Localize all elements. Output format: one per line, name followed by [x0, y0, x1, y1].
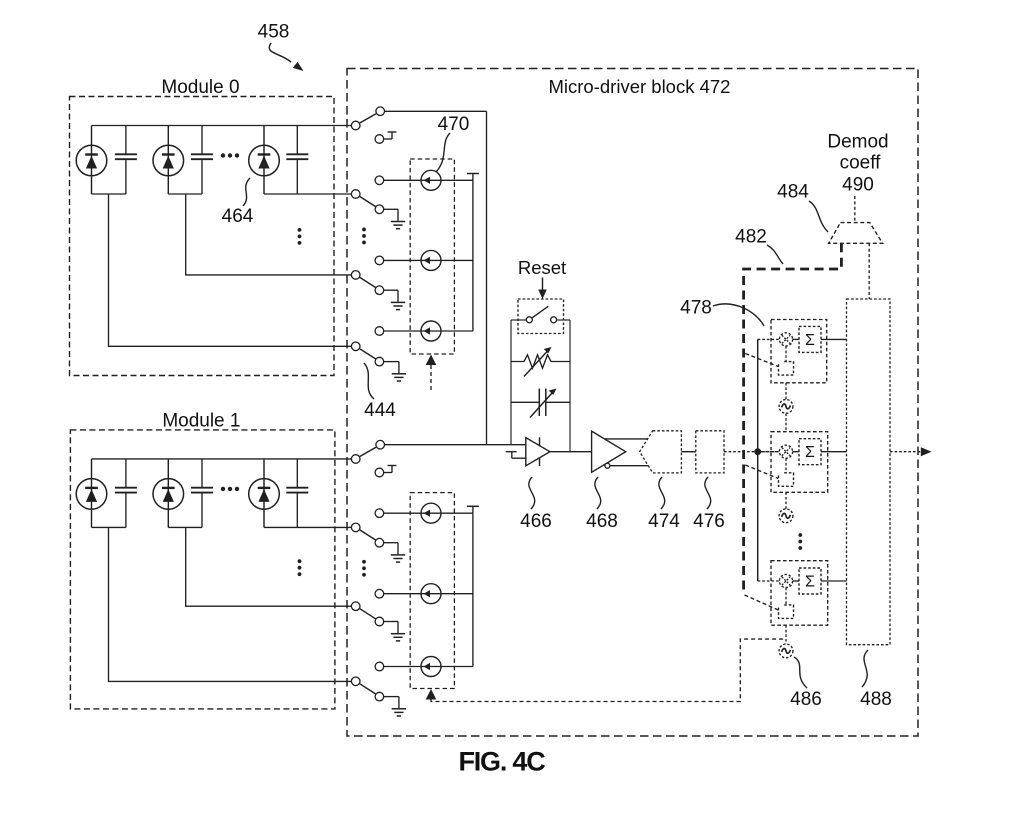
contact CS1 bank0	[375, 176, 384, 185]
svg-text:468: 468	[586, 511, 618, 532]
ground G4 bank1	[392, 709, 406, 716]
throw contact T1 bank1	[376, 440, 385, 449]
wire T1 bank1 to signal	[385, 444, 526, 446]
capacitor C1n	[286, 459, 308, 528]
pole contact P1 bank0	[351, 121, 360, 130]
wire T4 to ground bank1	[384, 697, 399, 709]
open contact stub bank1	[384, 466, 397, 473]
wire module1 pair1 drop	[109, 527, 352, 681]
wire T4 to ground bank0	[384, 362, 399, 374]
op-amp 466	[526, 437, 550, 466]
sum channel 2	[799, 439, 821, 465]
wire sum-488 channel 1	[821, 338, 847, 340]
svg-text:444: 444	[364, 400, 396, 421]
leader 468	[595, 477, 601, 509]
svg-text:486: 486	[790, 689, 822, 710]
wire PD1b-C1b bottom	[168, 526, 202, 528]
svg-text:476: 476	[693, 511, 725, 532]
coeff tap channel 3	[745, 595, 779, 610]
switch arm S4 bank0	[360, 349, 376, 359]
open contact bank1	[375, 468, 384, 477]
wire module0 pair1 drop	[109, 194, 352, 346]
leader 474	[659, 477, 665, 509]
current source box bank0	[410, 159, 454, 354]
wire mixer-sum channel 3	[793, 580, 799, 582]
svg-text:458: 458	[258, 22, 290, 43]
leader 466	[529, 477, 535, 509]
wire amp466 output	[550, 451, 592, 453]
capacitor C1a	[115, 459, 137, 528]
wire box-oscillator channel 1	[785, 383, 787, 400]
ellipsis module 1	[221, 487, 239, 491]
ground G3 bank1	[391, 634, 405, 641]
coeff funnel 484	[829, 223, 883, 244]
vertical ellipsis demod	[798, 533, 802, 550]
current source I1 bank0	[421, 170, 441, 190]
wire CS3 row bank1	[384, 666, 473, 668]
sum channel 3	[799, 568, 821, 594]
contact CS1 bank1	[375, 509, 384, 518]
open contact bank0	[375, 135, 384, 144]
mixer channel 3	[779, 574, 792, 587]
pole contact P3 bank1	[351, 602, 360, 611]
throw contact T1 bank0	[376, 107, 385, 116]
throw contact T2 bank0	[375, 205, 384, 214]
switch arm S3 bank0	[360, 277, 376, 287]
arrow Reset	[538, 278, 547, 300]
Micro-driver block 472 boundary	[347, 69, 918, 737]
wire T3 to ground bank1	[384, 622, 398, 634]
svg-text:484: 484	[777, 182, 809, 203]
bus current sources bank1	[472, 513, 474, 666]
integrator channel 3	[779, 605, 794, 619]
leader 486	[794, 657, 807, 688]
switch arm S3 bank1	[360, 609, 376, 619]
reset switch box	[518, 299, 564, 334]
vertical ellipsis bank1	[362, 560, 366, 577]
vertical ellipsis module 1	[298, 559, 302, 576]
wire mixer-sum channel 1	[793, 338, 799, 340]
current source I2 bank1	[421, 584, 441, 604]
wire channel2 input	[758, 451, 780, 453]
photodiode PD1n	[249, 459, 280, 528]
pole contact P1 bank1	[351, 455, 360, 464]
switch arm S2 bank1	[360, 530, 376, 540]
wire PD0a-C0a bottom	[92, 193, 126, 195]
leader 484	[809, 201, 828, 232]
wire oscillator-down channel 1	[785, 414, 787, 432]
ellipsis module 0	[221, 153, 239, 157]
arrow 458	[269, 43, 303, 71]
svg-text:Σ: Σ	[805, 574, 815, 591]
feedback network box	[511, 320, 570, 452]
integrator channel 2	[779, 473, 794, 487]
wire T1 bank0 to signal	[385, 111, 487, 445]
wire CS2 row bank1	[384, 593, 473, 595]
coeff tap channel 2	[745, 465, 778, 479]
demod channel 2 box	[771, 432, 828, 493]
amp466 reference stub	[506, 452, 526, 459]
wire 476 output	[724, 451, 779, 453]
wire T2 to ground bank1	[384, 543, 398, 555]
wire CS3 row bank0	[384, 330, 473, 332]
leader 470	[436, 133, 450, 172]
vertical ellipsis bank0	[362, 228, 366, 245]
wire PD0n bottom to terminal	[264, 193, 351, 195]
oscillator channel 3	[779, 644, 793, 658]
wire module0 top rail	[92, 125, 352, 127]
control line oscillators to current sources	[431, 639, 786, 701]
variable resistor feedback	[511, 347, 570, 377]
switch arm S1 bank0	[360, 114, 376, 123]
wire 490-funnel	[854, 196, 856, 223]
svg-text:490: 490	[842, 175, 874, 196]
throw contact T4 bank1	[375, 692, 384, 701]
vertical ellipsis module 0	[298, 228, 302, 245]
current source I1 bank1	[421, 503, 441, 523]
svg-text:Module 1: Module 1	[162, 410, 240, 431]
wire mixer-integrator channel 3	[785, 588, 787, 605]
demod channel 1 box	[771, 320, 827, 383]
wire CS1 row bank1	[384, 512, 473, 514]
contact CS3 bank0	[375, 327, 384, 336]
contact CS3 bank1	[375, 662, 384, 671]
control stub bank0	[430, 365, 432, 390]
wire sum-488 channel 2	[821, 451, 847, 453]
current source I3 bank1	[421, 657, 441, 677]
pole contact P3 bank0	[351, 271, 360, 280]
capacitor C0n	[286, 126, 308, 195]
wire box-oscillator channel 3	[785, 625, 787, 644]
pole contact P2 bank0	[351, 190, 360, 199]
junction node	[754, 448, 761, 455]
ground G4 bank0	[392, 374, 406, 381]
mixer channel 1	[779, 333, 792, 346]
control arrow bank0	[426, 355, 437, 366]
svg-text:coeff: coeff	[840, 153, 882, 174]
coeff bus 482	[744, 243, 842, 595]
throw contact T4 bank0	[375, 357, 384, 366]
bubble 468	[605, 463, 610, 468]
wire 474-476	[681, 451, 695, 453]
contact CS2 bank0	[375, 256, 384, 265]
bus demod channels	[757, 339, 759, 581]
supply rail bank1	[467, 506, 479, 513]
op-amp 468	[592, 431, 626, 472]
leader 444	[364, 363, 374, 399]
svg-text:466: 466	[520, 511, 552, 532]
current source box bank1	[410, 493, 454, 689]
leader 476	[705, 477, 711, 509]
throw contact T2 bank1	[375, 538, 384, 547]
svg-text:Reset: Reset	[518, 257, 566, 278]
open contact stub bank0	[384, 132, 397, 139]
svg-text:478: 478	[680, 298, 712, 319]
coeff tap channel 1	[745, 354, 778, 367]
switch arm S2 bank0	[360, 197, 376, 207]
oscillator channel 2	[779, 509, 793, 523]
wire T2 to ground bank0	[384, 209, 398, 221]
wire CS2 row bank0	[384, 259, 473, 261]
wire sum-488 channel 3	[821, 580, 847, 582]
wire channel3 input	[758, 580, 780, 582]
sum channel 1	[799, 326, 821, 352]
photodiode PD1b	[153, 459, 184, 528]
current source I3 bank0	[421, 321, 441, 341]
current source I2 bank0	[421, 250, 441, 270]
integrator channel 1	[779, 362, 794, 376]
svg-text:Σ: Σ	[805, 332, 815, 349]
filter 476	[696, 431, 724, 473]
reset switch	[526, 306, 556, 323]
Module 0 box	[70, 97, 335, 376]
photodiode PD1a	[76, 459, 107, 528]
svg-text:464: 464	[222, 206, 254, 227]
throw contact T3 bank1	[375, 617, 384, 626]
svg-text:470: 470	[438, 114, 470, 135]
wire mixer-integrator channel 1	[785, 346, 787, 362]
switch arm S1 bank1	[360, 447, 376, 456]
photodiode PD0b	[153, 126, 184, 195]
wire 468 lower link	[610, 465, 649, 467]
pole contact P4 bank0	[351, 342, 360, 351]
leader 488	[862, 650, 868, 687]
wire T3 to ground bank0	[384, 290, 398, 302]
wire module1 top rail	[92, 458, 352, 460]
wire CS1 row bank0	[384, 179, 473, 181]
pole contact P4 bank1	[351, 677, 360, 686]
svg-text:488: 488	[860, 689, 892, 710]
wire box-oscillator channel 2	[785, 492, 787, 508]
svg-text:Module 0: Module 0	[161, 77, 239, 98]
wire PD0b-C0b bottom	[168, 193, 202, 195]
svg-text:Σ: Σ	[805, 444, 815, 461]
ground G3 bank0	[391, 302, 405, 309]
variable capacitor feedback	[511, 389, 570, 418]
leader 464	[243, 178, 250, 206]
oscillator channel 1	[779, 400, 793, 414]
mixer channel 2	[779, 445, 792, 458]
photodiode PD0a	[76, 126, 107, 195]
control arrow bank1	[426, 689, 437, 700]
svg-text:474: 474	[648, 511, 680, 532]
ground G2 bank1	[391, 555, 405, 562]
wire channel1 input	[758, 338, 780, 340]
svg-text:Demod: Demod	[827, 132, 888, 153]
label Demod coeff 490	[827, 132, 888, 196]
pole contact P2 bank1	[351, 523, 360, 532]
demod channel 3 box	[771, 561, 828, 626]
svg-text:Micro-driver block 472: Micro-driver block 472	[549, 76, 731, 97]
supply rail bank0	[467, 174, 479, 181]
wire mixer-integrator channel 2	[785, 458, 787, 473]
capacitor C0a	[115, 126, 137, 195]
svg-text:FIG. 4C: FIG. 4C	[458, 747, 545, 777]
capacitor C0b	[191, 126, 213, 195]
wire PD1n bottom to terminal	[264, 526, 351, 528]
wire mixer-sum channel 2	[793, 451, 799, 453]
bus current sources bank0	[472, 180, 474, 331]
ground G2 bank0	[391, 222, 405, 229]
accumulator 488	[847, 299, 891, 645]
capacitor C1b	[191, 459, 213, 528]
throw contact T3 bank0	[375, 286, 384, 295]
wire PD1a-C1a bottom	[92, 526, 126, 528]
leader 482	[767, 245, 783, 264]
photodiode PD0n	[249, 126, 280, 195]
wire funnel-488	[868, 243, 870, 299]
converter 474	[640, 431, 682, 473]
output arrow	[890, 447, 932, 456]
wire 468 upper link	[605, 438, 648, 440]
wire module0 pair2 drop	[186, 194, 352, 275]
Module 1 box	[70, 430, 335, 709]
switch arm S4 bank1	[360, 684, 376, 694]
leader 478	[713, 304, 764, 326]
svg-text:482: 482	[735, 227, 767, 248]
contact CS2 bank1	[375, 589, 384, 598]
wire module1 pair2 drop	[186, 527, 352, 606]
